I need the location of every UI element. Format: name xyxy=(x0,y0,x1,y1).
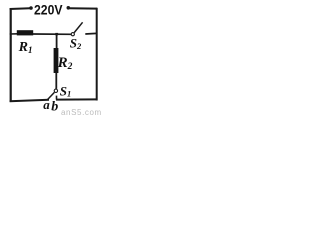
svg-text:220V: 220V xyxy=(34,2,63,17)
wire: left vertical side xyxy=(10,8,12,102)
wire: bottom right segment (from contact b) xyxy=(56,98,97,100)
svg-text:b: b xyxy=(51,99,58,114)
switch S1 blade xyxy=(48,92,55,99)
svg-text:R2: R2 xyxy=(57,55,73,72)
wire: top left segment to source terminal xyxy=(10,7,30,10)
node: contact b tick xyxy=(56,96,58,100)
node: source terminal left (dot) xyxy=(29,6,33,10)
resistor R2 (filled box) xyxy=(54,48,59,73)
switch S2 blade xyxy=(74,22,82,32)
svg-text:R1: R1 xyxy=(18,40,33,55)
svg-text:anS5.com: anS5.com xyxy=(61,108,102,117)
svg-text:a: a xyxy=(43,97,50,112)
svg-text:S2: S2 xyxy=(70,36,82,52)
switch S1 hinge contact (small circle) xyxy=(54,89,57,92)
wire: R1 branch right lead to junction and S2 xyxy=(33,33,71,35)
wire: middle vertical lower segment xyxy=(55,73,57,89)
svg-text:S1: S1 xyxy=(60,83,71,98)
wire: S2 right stub xyxy=(85,32,96,35)
wire: right vertical side xyxy=(96,8,98,101)
wire: top right segment xyxy=(70,7,98,9)
wire: middle vertical upper segment xyxy=(56,34,58,49)
wire: bottom left segment (to contact a) xyxy=(10,100,49,101)
node: junction of middle branch xyxy=(55,33,58,35)
node: source terminal right (dot) xyxy=(67,6,71,10)
resistor R1 (filled box) xyxy=(17,30,33,35)
wire: R1 branch left lead xyxy=(10,33,18,35)
switch S2 hinge contact (small circle) xyxy=(71,33,74,36)
